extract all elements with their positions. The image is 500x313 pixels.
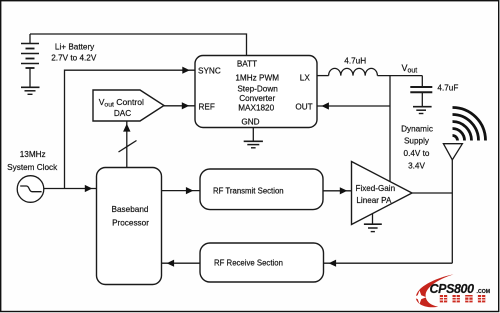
wire: baseband control bus to DAC xyxy=(126,121,128,168)
inductor L1 4.7uH xyxy=(329,68,378,75)
svg-text:Baseband: Baseband xyxy=(112,205,149,214)
arrowhead into PA input xyxy=(340,187,348,194)
arrowhead into OUT pin xyxy=(321,102,329,109)
svg-text:Processor: Processor xyxy=(112,219,149,228)
label: Fixed-Gain Linear PA xyxy=(356,184,396,205)
svg-text:SYNC: SYNC xyxy=(198,67,221,76)
wire: clock branch up to SYNC xyxy=(65,70,196,188)
wire: dynamic supply feed down to PA xyxy=(389,76,391,182)
label: Li+ Battery 2.7V to 4.2V xyxy=(51,42,97,62)
arrowhead into RF transmit xyxy=(186,187,194,194)
svg-text:4.7uH: 4.7uH xyxy=(344,57,366,66)
ground: output capacitor xyxy=(413,107,432,114)
svg-text:1MHz PWM: 1MHz PWM xyxy=(235,74,279,83)
oscillator Y1: 13MHz system clock source xyxy=(17,176,44,203)
arrowhead into RF receive xyxy=(329,260,337,267)
logo text: Chinese characters dian yuan zai xian xyxy=(440,295,486,302)
wire: RF receive to baseband xyxy=(162,262,200,264)
wire: antenna node to RF receive xyxy=(324,262,453,264)
wire: PA output to antenna node xyxy=(412,192,452,194)
logo: CPS800.com crescent swoosh xyxy=(416,274,454,307)
svg-text:CPS800: CPS800 xyxy=(430,282,475,296)
DAC U2: Vout control DAC (pointed block) xyxy=(93,90,164,121)
label: 1MHz PWM Step-Down Converter MAX1820 xyxy=(235,74,279,113)
svg-text:13MHz: 13MHz xyxy=(20,150,46,159)
antenna ANT1 xyxy=(443,144,462,160)
wire: 13MHz clock output xyxy=(44,188,97,190)
svg-text:Step-Down: Step-Down xyxy=(237,85,278,94)
svg-text:GND: GND xyxy=(241,118,259,127)
svg-text:RF Transmit Section: RF Transmit Section xyxy=(213,187,284,196)
svg-text:LX: LX xyxy=(300,74,311,83)
label: Dynamic Supply 0.4V to 3.4V xyxy=(401,125,433,171)
svg-text:4.7uF: 4.7uF xyxy=(437,84,458,93)
svg-text:RF Receive Section: RF Receive Section xyxy=(214,259,283,268)
arrowhead into DAC (up) xyxy=(123,124,130,132)
processor U3: Baseband Processor box xyxy=(97,168,162,285)
wire: output feedback to OUT pin xyxy=(317,105,390,107)
svg-text:System Clock: System Clock xyxy=(7,163,58,172)
label: 13MHz System Clock xyxy=(7,150,58,172)
amplifier U6: fixed-gain linear PA triangle xyxy=(352,162,413,225)
arrowhead into baseband (left) xyxy=(167,260,175,267)
svg-text:0.4V to: 0.4V to xyxy=(404,149,430,158)
svg-text:Dynamic: Dynamic xyxy=(401,125,433,134)
wire: inductor to Vout node xyxy=(377,75,422,77)
svg-text:Linear PA: Linear PA xyxy=(356,196,392,205)
converter U1 MAX1820 step-down converter box xyxy=(195,56,317,128)
wire: battery positive rail to BATT pin xyxy=(30,34,247,56)
svg-text:REF: REF xyxy=(199,103,215,112)
ground: PA ground xyxy=(364,214,382,232)
battery B1 (Li+ cell stack) xyxy=(21,34,39,87)
ground: battery negative xyxy=(21,87,40,94)
svg-text:Li+ Battery: Li+ Battery xyxy=(55,42,95,51)
svg-text:.COM: .COM xyxy=(477,289,491,295)
logo: star sparkle xyxy=(413,291,427,305)
arrowhead into REF pin xyxy=(182,102,190,109)
wire: DAC output to REF xyxy=(164,105,195,107)
svg-text:MAX1820: MAX1820 xyxy=(238,104,274,113)
svg-text:DAC: DAC xyxy=(114,109,131,118)
arrowhead into SYNC pin xyxy=(182,67,190,74)
arrowhead into Baseband Processor clock input xyxy=(85,185,93,192)
ground: converter GND pin xyxy=(244,128,263,148)
svg-text:Fixed-Gain: Fixed-Gain xyxy=(356,184,396,193)
wire: RF transmit to PA xyxy=(323,190,352,192)
svg-text:Converter: Converter xyxy=(239,94,275,103)
wire: LX pin to inductor xyxy=(317,75,329,77)
label: Baseband Processor xyxy=(112,205,150,228)
capacitor C1 4.7uF xyxy=(410,76,432,107)
wire: antenna feed line xyxy=(451,160,453,263)
label: Vout Control DAC xyxy=(99,97,144,118)
radiated signal arcs xyxy=(453,108,486,141)
wire: baseband to RF transmit xyxy=(162,190,201,192)
svg-text:3.4V: 3.4V xyxy=(408,162,425,171)
svg-text:Supply: Supply xyxy=(404,137,430,146)
svg-text:OUT: OUT xyxy=(295,103,312,112)
block U4: RF Transmit Section box xyxy=(200,169,323,210)
svg-text:2.7V to 4.2V: 2.7V to 4.2V xyxy=(51,54,97,63)
svg-text:BATT: BATT xyxy=(237,60,257,69)
block U5: RF Receive Section box xyxy=(200,243,324,282)
bus slash mark xyxy=(119,141,137,153)
